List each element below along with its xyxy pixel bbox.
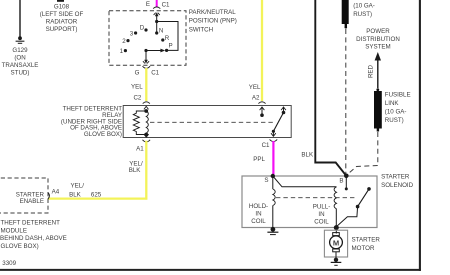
connector arc A4 — [48, 192, 50, 199]
park/neutral position switch box (dashed) — [109, 11, 186, 65]
relay switch blade — [273, 113, 283, 132]
svg-text:3: 3 — [130, 30, 134, 37]
page border bottom — [0, 269, 421, 271]
svg-text:PPL: PPL — [253, 156, 265, 163]
arrow RED to power distribution — [375, 52, 381, 88]
svg-text:THEFT DETERRENT: THEFT DETERRENT — [1, 220, 61, 227]
svg-text:G129: G129 — [12, 47, 28, 54]
dashed wire from lower fusible link to B — [347, 132, 378, 175]
terminal arrow up to E — [154, 12, 160, 21]
contact D — [144, 28, 147, 31]
contact 3 — [134, 31, 137, 34]
page border right — [419, 0, 421, 271]
contact R — [161, 38, 164, 41]
contact N — [155, 31, 158, 34]
svg-text:STUD): STUD) — [11, 70, 30, 77]
hold-in coil — [273, 189, 275, 206]
svg-text:STARTER: STARTER — [352, 237, 381, 244]
svg-text:STARTER: STARTER — [381, 174, 410, 181]
svg-text:PULL-: PULL- — [313, 204, 331, 211]
wire N contact — [156, 22, 158, 34]
ground G108 (partially cut at top) — [57, 0, 64, 2]
contact 1 — [124, 49, 127, 52]
svg-text:C1: C1 — [262, 142, 270, 149]
svg-text:PARK/NEUTRAL: PARK/NEUTRAL — [189, 9, 237, 16]
wire YEL/BLK horizontal to module A4 — [49, 197, 148, 199]
svg-text:HOLD-: HOLD- — [249, 203, 268, 210]
ground (starter motor) — [331, 258, 342, 266]
contact P — [165, 49, 168, 52]
connector arc C1 (relay bottom) — [270, 139, 278, 141]
node B — [344, 174, 349, 179]
svg-text:POWER: POWER — [366, 28, 390, 35]
node blade bottom — [356, 205, 360, 209]
wire PNK at E/C1 — [156, 0, 158, 7]
svg-text:(10 GA-: (10 GA- — [353, 3, 375, 10]
relay contact (blade pivot) — [282, 111, 286, 115]
svg-text:YEL/: YEL/ — [71, 182, 85, 189]
contact 2 — [126, 39, 129, 42]
svg-text:COIL: COIL — [314, 219, 329, 226]
pull-in coil — [334, 187, 336, 209]
svg-text:2: 2 — [122, 38, 126, 45]
svg-text:D: D — [140, 25, 145, 32]
svg-text:SOLENOID: SOLENOID — [381, 182, 414, 189]
svg-text:YEL: YEL — [249, 84, 261, 91]
svg-text:SUPPORT): SUPPORT) — [46, 26, 78, 33]
svg-text:YEL: YEL — [131, 84, 143, 91]
svg-text:SWITCH: SWITCH — [189, 26, 213, 33]
svg-text:BLK: BLK — [129, 167, 142, 174]
wire motor to ground — [335, 252, 337, 260]
svg-text:IN: IN — [255, 211, 261, 218]
svg-text:(LEFT SIDE OF: (LEFT SIDE OF — [40, 11, 84, 18]
svg-text:SYSTEM: SYSTEM — [365, 44, 390, 51]
svg-text:C1: C1 — [162, 1, 170, 8]
wire from N node to P contact (rect path) — [157, 22, 178, 51]
node motor junction — [334, 225, 339, 230]
connector arc A2 — [258, 102, 265, 104]
svg-text:GLOVE BOX): GLOVE BOX) — [84, 131, 122, 138]
svg-text:IN: IN — [318, 211, 324, 218]
motor M circle — [330, 236, 343, 249]
svg-text:M: M — [333, 238, 339, 247]
svg-text:B: B — [339, 178, 343, 185]
svg-text:GLOVE BOX): GLOVE BOX) — [1, 243, 39, 250]
terminal arrow down to G — [143, 51, 149, 64]
wire B to fixed contact — [345, 176, 347, 189]
svg-text:(10 GA-: (10 GA- — [385, 109, 407, 116]
svg-text:FUSIBLE: FUSIBLE — [385, 91, 411, 98]
terminal ticks C2 inside — [144, 106, 149, 109]
svg-text:MOTOR: MOTOR — [352, 245, 375, 252]
fusible link (lower, 10 GA RUST) — [374, 88, 382, 131]
svg-text:1: 1 — [120, 48, 124, 55]
svg-text:P: P — [169, 43, 173, 50]
svg-text:POSITION (PNP): POSITION (PNP) — [189, 18, 237, 25]
svg-text:G108: G108 — [54, 3, 70, 10]
svg-text:BLK: BLK — [301, 152, 314, 159]
wire hold-in coil branch — [272, 176, 274, 189]
node at N branch — [155, 20, 158, 23]
svg-text:A4: A4 — [52, 189, 60, 196]
starter motor case — [324, 230, 347, 257]
mechanical link (dashed) — [150, 121, 274, 123]
svg-text:BLK: BLK — [69, 192, 82, 199]
relay terminal C1 arrow down — [271, 131, 276, 136]
svg-text:S: S — [264, 177, 268, 184]
wire pull-in coil to node — [335, 209, 337, 228]
wiper wire with arrow to P — [146, 49, 165, 53]
wire YEL/BLK vertical from relay A1 — [145, 141, 147, 200]
wire to G129 ground — [19, 0, 21, 37]
connector arc E/C1 — [153, 7, 160, 9]
svg-text:DISTRIBUTION: DISTRIBUTION — [356, 36, 400, 43]
relay terminal A2 arrow — [260, 107, 265, 115]
wire YEL from PNP to relay C2 — [145, 68, 147, 101]
wire YEL from top to relay A2 — [261, 0, 263, 101]
relay fixed contact arrow — [281, 107, 286, 113]
relay contact A2 — [260, 113, 264, 117]
svg-text:LINK: LINK — [385, 100, 400, 107]
svg-text:A2: A2 — [252, 95, 260, 102]
wire blade to motor node — [336, 207, 357, 227]
connector arc A1 (relay bottom left) — [143, 140, 151, 142]
mechanical link (dashed) solenoid — [276, 197, 355, 199]
node solenoid ground — [271, 227, 276, 232]
svg-text:N: N — [159, 27, 163, 34]
svg-text:MODULE: MODULE — [1, 227, 27, 234]
svg-text:3309: 3309 — [2, 260, 16, 267]
junction node G — [144, 49, 147, 52]
svg-text:RUST): RUST) — [353, 11, 372, 18]
svg-text:C2: C2 — [133, 95, 141, 102]
wire to starter motor — [335, 228, 337, 234]
wire PPL relay to solenoid S — [272, 141, 274, 176]
relay resistor (left zigzag) — [133, 111, 146, 135]
svg-text:C1: C1 — [151, 70, 159, 77]
theft deterrent relay box — [123, 106, 291, 138]
connector arc G/C1 — [143, 66, 151, 68]
svg-text:G: G — [135, 70, 140, 77]
svg-text:R: R — [165, 35, 170, 42]
svg-text:RUST): RUST) — [385, 117, 404, 124]
node coil bottom — [144, 133, 148, 137]
wire S to pull-in coil — [273, 176, 337, 187]
svg-text:(BEHIND DASH, ABOVE: (BEHIND DASH, ABOVE — [0, 235, 67, 242]
wire hold-in coil to ground — [272, 206, 274, 229]
svg-text:A1: A1 — [136, 146, 144, 153]
contact blade top — [367, 187, 371, 191]
svg-text:TRANSAXLE: TRANSAXLE — [2, 62, 39, 69]
ground (solenoid coils) — [267, 232, 278, 234]
svg-text:COIL: COIL — [251, 218, 266, 225]
ground G129 — [16, 36, 25, 43]
svg-text:ENABLE: ENABLE — [20, 198, 44, 205]
wire BLK to solenoid B — [315, 0, 346, 176]
contact under B — [345, 187, 348, 190]
node S — [271, 174, 275, 178]
motor brush top — [333, 233, 340, 236]
dashed wire from top fusible link to B — [345, 29, 347, 174]
node blade bottom — [272, 130, 275, 133]
relay coil (right element) — [146, 111, 148, 133]
terminal ticks A1 inside — [144, 134, 149, 137]
fusible link (top, 10 GA RUST) — [342, 0, 349, 29]
svg-text:625: 625 — [91, 192, 102, 199]
connector arc C2 — [143, 102, 150, 104]
node coil top — [144, 109, 148, 113]
starter solenoid box — [242, 176, 377, 228]
svg-text:E: E — [146, 1, 150, 8]
solenoid switch blade — [358, 189, 369, 207]
svg-text:(ON: (ON — [14, 55, 25, 62]
theft deterrent module box (dashed, cut at left) — [0, 178, 48, 213]
svg-text:RADIATOR: RADIATOR — [46, 19, 78, 26]
svg-text:RED: RED — [367, 64, 374, 78]
motor brush bottom — [333, 249, 340, 252]
